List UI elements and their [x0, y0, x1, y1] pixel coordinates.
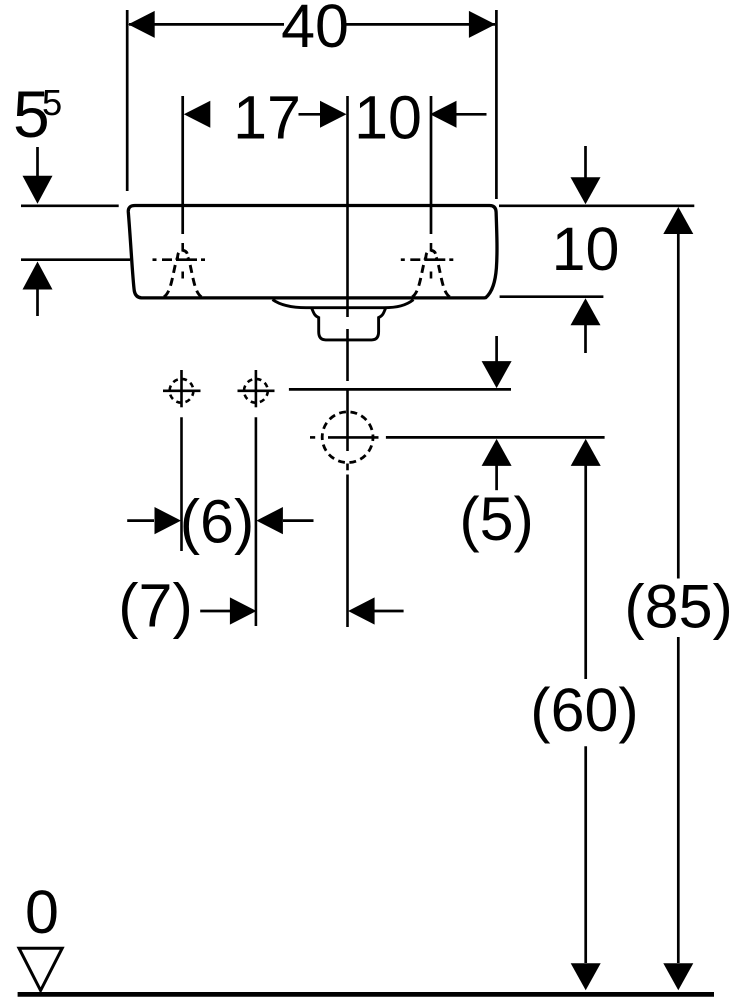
extension line right tap [430, 96, 433, 234]
dimension 60 line lower [584, 746, 587, 963]
dimension 60 down arrowhead [571, 963, 601, 990]
right tap centre line horizontal [401, 258, 454, 261]
dimension 40 extension line right [495, 10, 498, 199]
left tap hole dashed symbol right flank [188, 257, 202, 297]
left tap centre line vertical dash lower [181, 272, 184, 279]
right tap centre line vertical dash lower [430, 272, 433, 279]
water trap centre line through circle [328, 436, 379, 439]
right tap hole dashed symbol left flank [412, 257, 426, 297]
dimension 10 height down arrowhead [571, 177, 601, 204]
washbasin underside curve [273, 300, 414, 308]
main centre line dash below trap [346, 464, 349, 471]
dimension 85 line lower [677, 637, 680, 963]
fixation hole 2 dashed circle [244, 379, 268, 403]
water trap centre line dash left [310, 436, 315, 439]
dimension 60 line upper [584, 465, 587, 679]
svg-text:17: 17 [233, 84, 301, 152]
left tap centre line horizontal [153, 258, 206, 261]
reference line fixation level [289, 388, 511, 391]
dimension 17 stem right [299, 113, 321, 116]
dimension 40 line right segment [346, 23, 495, 26]
dimension 40 arrowhead left [128, 11, 155, 38]
right tap centre line vertical dash upper [430, 243, 433, 252]
dimension 40 line left segment [129, 23, 284, 26]
dimension 10 top arrowhead [430, 101, 457, 128]
main centre line segment 3 [346, 389, 349, 452]
fixation hole 1 dashed circle [170, 379, 194, 403]
reference line trap level [386, 436, 605, 439]
dimension 40 arrowhead right [469, 11, 496, 38]
reference line tap level left [21, 258, 130, 261]
dimension 5.5 down arrowhead [23, 176, 53, 204]
svg-text:(6): (6) [180, 488, 255, 556]
dimension 17 arrowhead right [320, 101, 347, 128]
dimension 7 arrowhead left [230, 597, 257, 624]
dimension 60 up arrowhead [571, 439, 601, 466]
dimension 6 stem left [127, 519, 154, 522]
fixation hole 1 vertical centre line lower [180, 417, 183, 551]
main centre line segment 2 [346, 329, 349, 381]
dimension 5.5 upper stem [36, 147, 39, 176]
dimension 5.5 lower stem [36, 289, 39, 316]
right tap hole dashed symbol cap [426, 251, 436, 260]
dimension 40 extension line left [126, 10, 129, 191]
dimension 10 height lower stem [584, 325, 587, 353]
drain outlet [312, 308, 386, 340]
main centre line segment 4 [346, 475, 349, 628]
svg-text:(5): (5) [459, 485, 534, 553]
right tap hole dashed symbol right flank [436, 257, 450, 297]
washbasin outline [128, 206, 497, 298]
left tap centre line vertical dash upper [181, 243, 184, 252]
left tap hole dashed symbol left flank [164, 257, 178, 297]
dimension 85 up arrowhead [663, 207, 693, 234]
dimension 10 height upper stem [584, 146, 587, 178]
dimension 5 down arrowhead [482, 361, 512, 388]
dimension 10 height up arrowhead [571, 298, 601, 325]
dimension 17 arrowhead left [184, 101, 211, 128]
dimension 7 stem left [200, 610, 232, 613]
dimension 5 upper stem [495, 336, 498, 362]
svg-text:5: 5 [13, 77, 50, 151]
dimension 10 top stem [456, 113, 487, 116]
svg-text:(60): (60) [530, 676, 638, 744]
svg-text:0: 0 [25, 878, 59, 946]
dimension 6 stem right [283, 519, 314, 522]
datum triangle symbol [19, 948, 62, 990]
dimension 5 lower stem [495, 465, 498, 490]
dimension 5.5 up arrowhead [23, 262, 53, 290]
dimension 5 up arrowhead [482, 439, 512, 466]
extension line left tap [181, 96, 184, 234]
svg-text:10: 10 [354, 84, 422, 152]
floor baseline [18, 992, 714, 997]
dimension 85 line upper [677, 234, 680, 579]
svg-text:40: 40 [281, 0, 349, 60]
svg-text:(7): (7) [118, 572, 193, 640]
svg-text:(85): (85) [624, 573, 732, 641]
fixation hole 1 vertical centre line upper [180, 370, 183, 407]
fixation hole 2 vertical centre line lower [255, 417, 258, 626]
dimension 6 arrowhead left [155, 507, 182, 534]
fixation hole 1 horizontal centre line [163, 389, 201, 392]
water trap dashed circle [322, 412, 373, 463]
main centre line segment 1 [346, 96, 349, 317]
dimension 6 arrowhead right [256, 507, 283, 534]
fixation hole 2 horizontal centre line [238, 389, 275, 392]
reference line top edge left [21, 204, 119, 207]
reference line basin bottom right [500, 295, 604, 298]
dimension 5.5 superscript digit [43, 90, 60, 115]
dimension 7 stem right [375, 610, 404, 613]
dimension 7 arrowhead right [348, 597, 375, 624]
svg-text:10: 10 [552, 215, 620, 283]
dimension 85 down arrowhead [663, 963, 693, 990]
fixation hole 2 vertical centre line upper [255, 370, 258, 407]
left tap hole dashed symbol cap [178, 251, 188, 260]
reference line top edge right [499, 204, 694, 207]
